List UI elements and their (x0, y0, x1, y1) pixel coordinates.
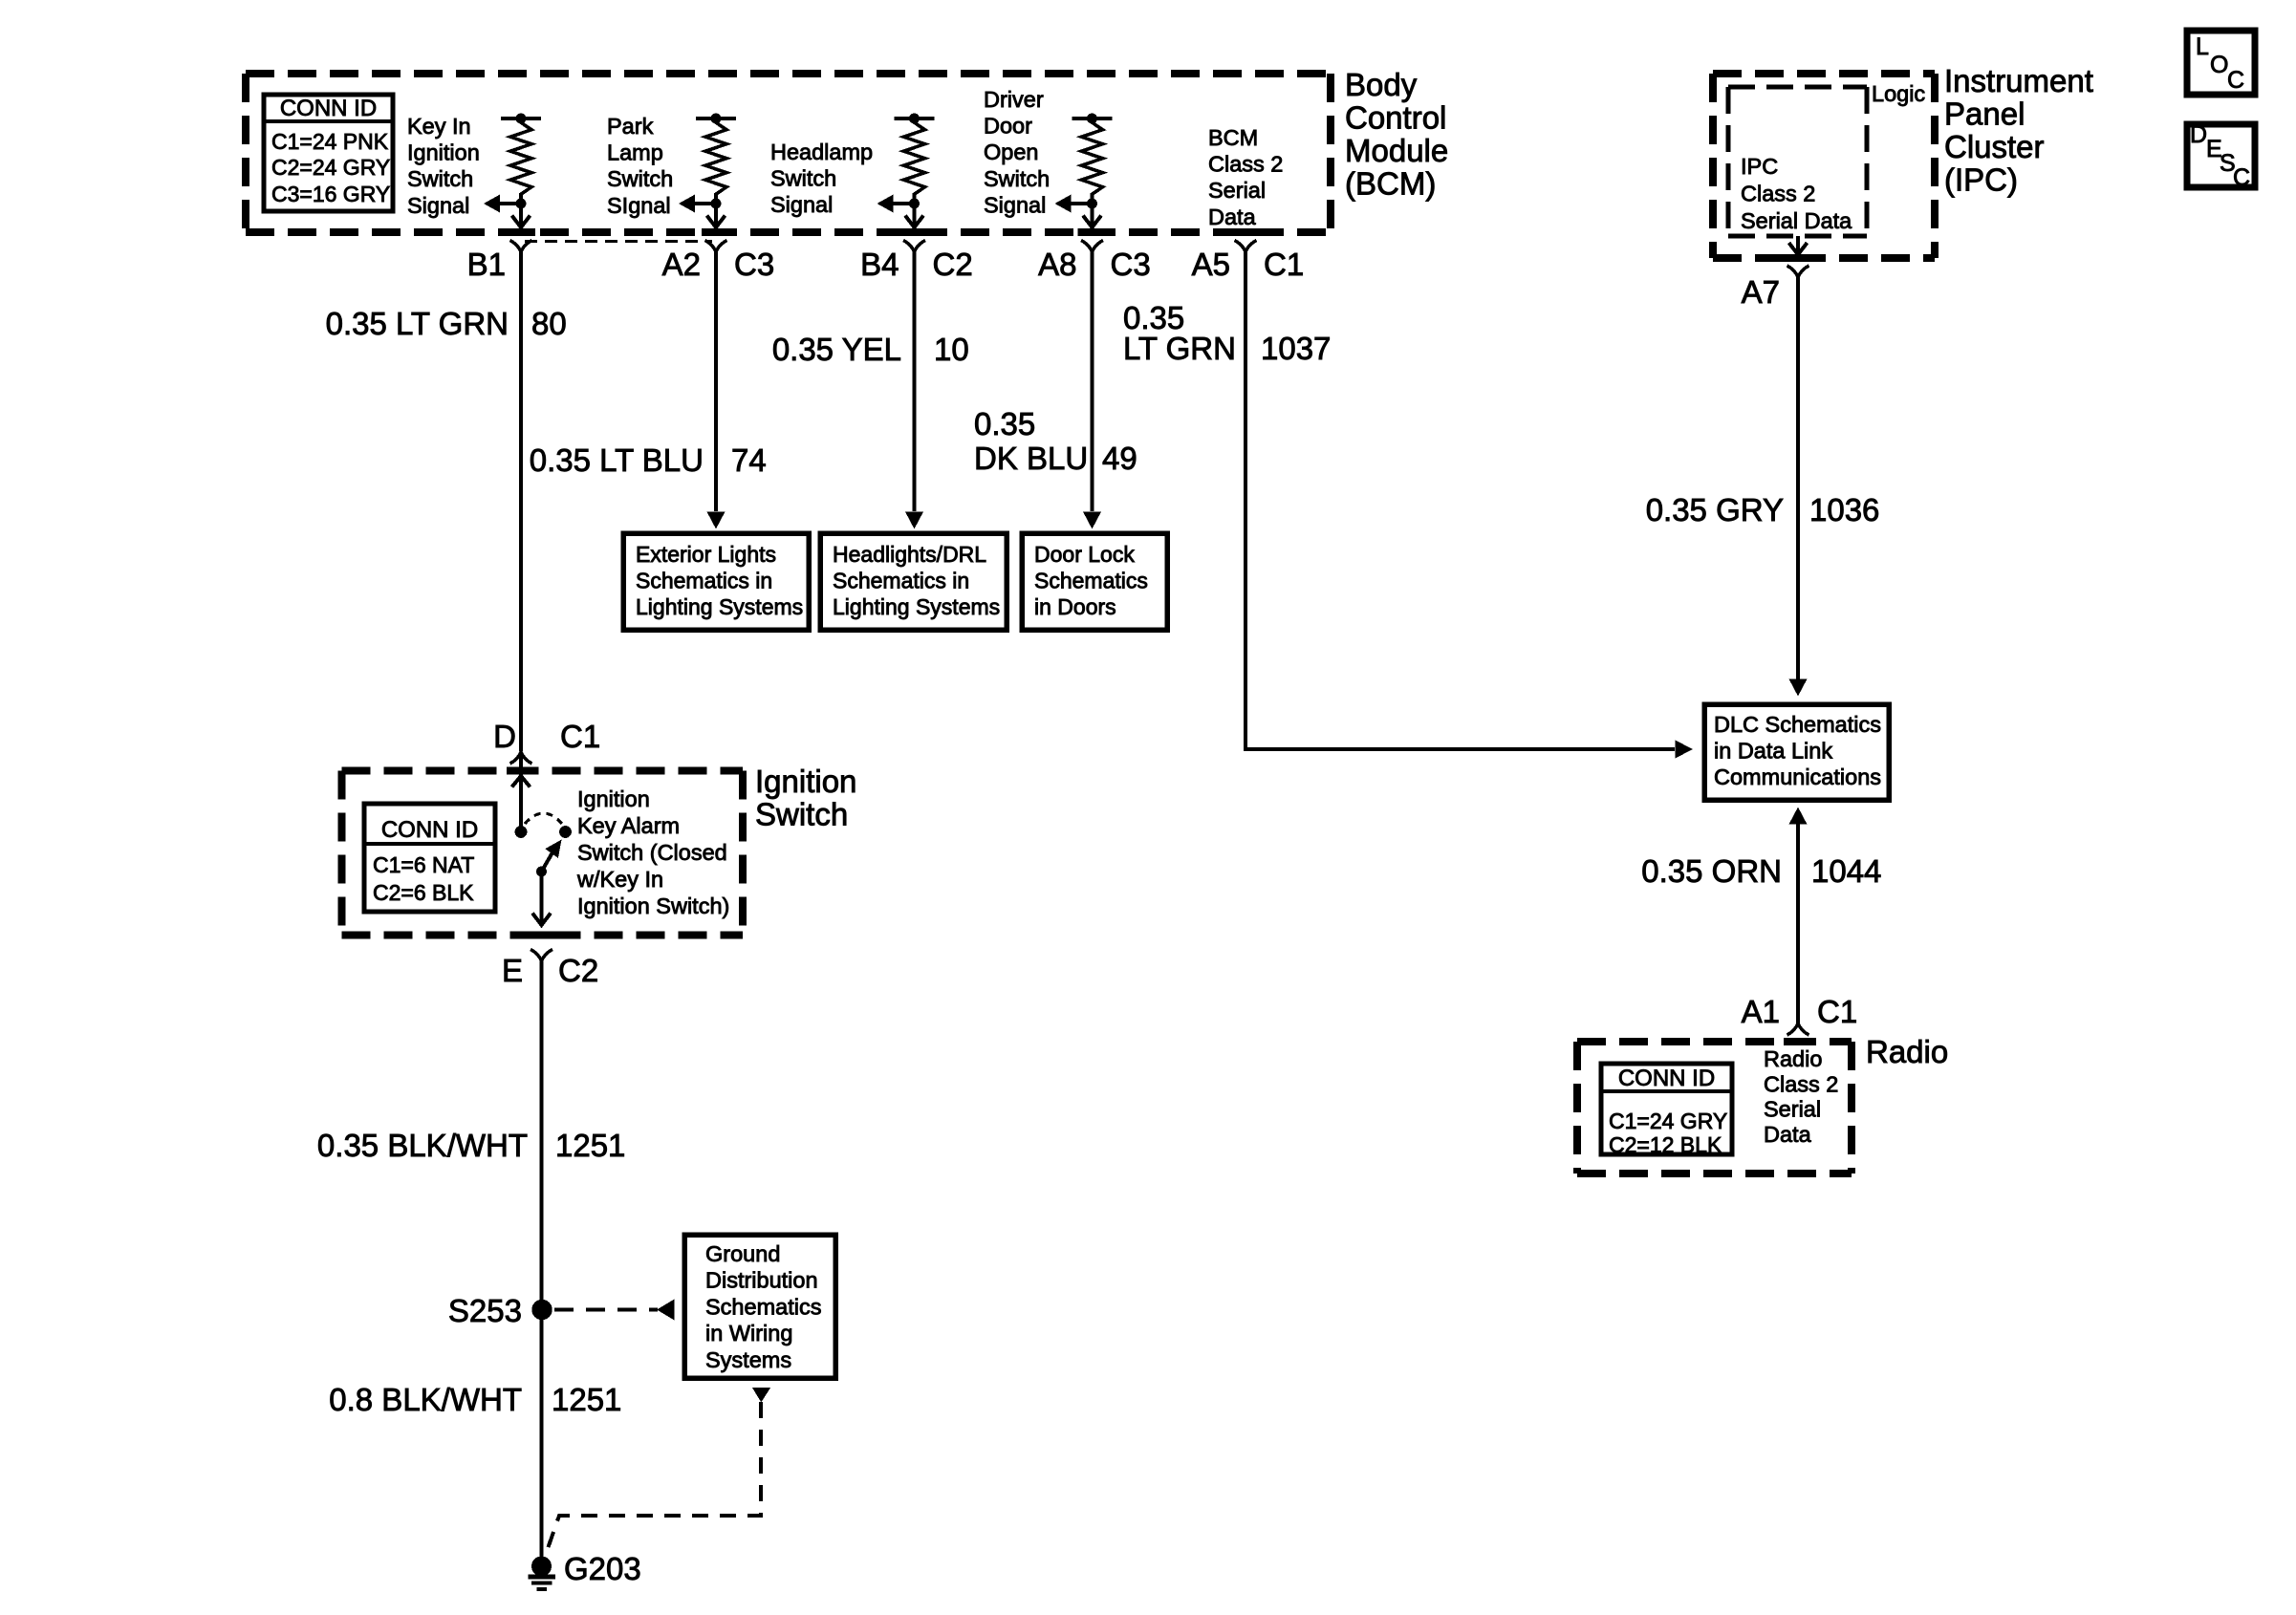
svg-text:C3: C3 (1111, 247, 1151, 282)
svg-text:B4: B4 (860, 247, 899, 282)
svg-text:Switch: Switch (607, 166, 673, 191)
svg-text:Class 2: Class 2 (1764, 1071, 1838, 1096)
svg-text:1251: 1251 (555, 1128, 625, 1163)
svg-text:0.35 ORN: 0.35 ORN (1641, 853, 1782, 889)
wire label 0.35 BLK/WHT 1251 (317, 1128, 626, 1163)
pin B4/C2 connector symbol (860, 241, 973, 283)
wire B4/C2 to headlights/DRL, 0.35 YEL 10 (905, 252, 923, 529)
svg-text:Driver: Driver (984, 87, 1044, 112)
svg-text:Park: Park (607, 114, 654, 139)
label Radio Class 2 Serial Data (1764, 1046, 1838, 1147)
svg-text:74: 74 (731, 442, 767, 478)
svg-text:Lamp: Lamp (607, 140, 663, 165)
svg-text:Switch: Switch (984, 166, 1050, 191)
svg-text:Ground: Ground (705, 1241, 780, 1266)
reference box: Door Lock Schematics in Doors (1022, 533, 1167, 630)
svg-text:Key Alarm: Key Alarm (577, 813, 680, 838)
svg-text:Key In: Key In (407, 114, 471, 139)
svg-text:C1: C1 (1264, 247, 1304, 282)
svg-text:Ignition Switch): Ignition Switch) (577, 894, 729, 918)
wire label 0.35 GRY 1036 (1646, 492, 1880, 528)
svg-text:Signal: Signal (984, 192, 1046, 217)
svg-text:0.35 LT GRN: 0.35 LT GRN (326, 306, 509, 341)
svg-text:Data: Data (1764, 1122, 1812, 1147)
svg-text:Ignition: Ignition (577, 786, 650, 811)
reference box: Ground Distribution Schematics in Wiring Systems (684, 1235, 835, 1378)
svg-text:Instrument: Instrument (1944, 63, 2093, 98)
svg-text:D: D (493, 719, 516, 754)
svg-text:S253: S253 (448, 1293, 522, 1328)
reference box: DLC Schematics in Data Link Communications (1704, 704, 1889, 800)
svg-text:Headlights/DRL: Headlights/DRL (833, 542, 986, 567)
reference box: Exterior Lights Schematics in Lighting Systems (623, 533, 809, 630)
svg-text:C2: C2 (933, 247, 973, 282)
Body Control Module (BCM) label (1345, 67, 1448, 202)
svg-text:D: D (2190, 121, 2207, 148)
dashed reference path from ground distribution box to G203 (544, 1388, 770, 1560)
svg-text:C1=6 NAT: C1=6 NAT (373, 852, 474, 877)
svg-text:in Doors: in Doors (1034, 594, 1116, 619)
svg-text:0.35 LT BLU: 0.35 LT BLU (530, 442, 704, 478)
svg-text:Cluster: Cluster (1944, 129, 2045, 164)
wire label 0.35 LT BLU 74 (530, 442, 767, 478)
wire label 0.35 DK BLU 49 (974, 406, 1137, 476)
svg-text:Serial: Serial (1764, 1097, 1821, 1122)
wire crossing dashes on BCM bottom border (507, 228, 1260, 236)
svg-text:Panel: Panel (1944, 97, 2025, 132)
svg-text:Signal: Signal (407, 193, 469, 218)
wire A7 to DLC, 0.35 GRY 1036 (1789, 277, 1808, 697)
svg-text:Radio: Radio (1764, 1046, 1822, 1071)
svg-text:Switch: Switch (407, 166, 473, 191)
svg-text:Body: Body (1345, 67, 1418, 102)
wire A2/C3 to exterior lights, 0.35 LT BLU 74 (707, 252, 726, 529)
svg-text:Schematics: Schematics (705, 1294, 821, 1319)
svg-text:0.35 BLK/WHT: 0.35 BLK/WHT (317, 1128, 528, 1163)
connector D/C1 at ignition switch (493, 719, 600, 764)
DESC legend box (2187, 121, 2255, 191)
connector dashed link line between pins B1 and A2 (connector C3) (525, 240, 712, 243)
svg-text:Open: Open (984, 140, 1039, 164)
svg-text:1251: 1251 (552, 1382, 621, 1417)
reference box: Headlights/DRL Schematics in Lighting Systems (820, 533, 1007, 630)
svg-text:DK BLU: DK BLU (974, 441, 1088, 476)
wire label 0.35 ORN 1044 (1641, 853, 1881, 889)
svg-text:A8: A8 (1038, 247, 1076, 282)
svg-text:in Wiring: in Wiring (705, 1321, 792, 1346)
pin A8/C3 connector symbol (1038, 241, 1151, 283)
svg-text:Systems: Systems (705, 1347, 791, 1372)
svg-text:CONN ID: CONN ID (1618, 1066, 1715, 1091)
label BCM Class 2 Serial Data (1208, 125, 1283, 229)
wire S253 to G203, 0.8 BLK/WHT 1251 (540, 1309, 544, 1558)
svg-text:Class 2: Class 2 (1208, 152, 1283, 177)
svg-text:Ignition: Ignition (407, 140, 480, 165)
svg-text:LT GRN: LT GRN (1123, 331, 1236, 366)
svg-text:Distribution: Distribution (705, 1268, 818, 1293)
wire crossing dash on IPC bottom border (1784, 254, 1812, 262)
label Key In Ignition Switch Signal (407, 114, 480, 218)
svg-text:Switch: Switch (755, 797, 848, 832)
svg-text:C: C (2233, 164, 2250, 191)
svg-text:Data: Data (1208, 205, 1257, 229)
svg-text:A2: A2 (662, 247, 701, 282)
wire B1 to ignition switch, 0.35 LT GRN 80 (519, 252, 523, 752)
LOC legend box (2187, 31, 2255, 95)
svg-text:A5: A5 (1192, 247, 1230, 282)
svg-text:C2: C2 (558, 953, 598, 988)
Ignition Switch label (755, 764, 856, 832)
label Park Lamp Switch Signal (607, 114, 673, 218)
svg-text:w/Key In: w/Key In (576, 867, 663, 892)
BCM CONN ID table (264, 95, 393, 211)
svg-text:Radio: Radio (1866, 1034, 1948, 1069)
svg-text:(BCM): (BCM) (1345, 166, 1436, 202)
connector A7 at IPC (1742, 266, 1809, 310)
svg-text:Control: Control (1345, 100, 1446, 136)
svg-text:L: L (2196, 33, 2209, 60)
Ignition Switch dashed outline (342, 771, 744, 936)
svg-text:0.35 GRY: 0.35 GRY (1646, 492, 1784, 528)
label Driver Door Open Switch Signal (984, 87, 1050, 217)
svg-text:Signal: Signal (770, 192, 833, 217)
svg-text:SIgnal: SIgnal (607, 193, 671, 218)
svg-text:1037: 1037 (1261, 331, 1331, 366)
wire A8/C3 to door lock, 0.35 DK BLU 49 (1083, 252, 1101, 529)
svg-text:10: 10 (934, 332, 969, 367)
pin A2/C3 connector symbol (662, 241, 775, 283)
Radio CONN ID table (1601, 1064, 1732, 1157)
resistor, Park Lamp Switch Signal pull-up (679, 114, 736, 228)
splice S253 (448, 1293, 552, 1328)
svg-text:Ignition: Ignition (755, 764, 856, 799)
dashed reference line from S253 to ground distribution box (554, 1300, 675, 1321)
label Headlamp Switch Signal (770, 140, 873, 217)
wire crossing dash on radio top border (1784, 1038, 1812, 1045)
svg-text:Headlamp: Headlamp (770, 140, 873, 164)
svg-text:Module: Module (1345, 133, 1448, 168)
resistor, Key In Ignition Switch Signal pull-up (484, 114, 541, 228)
svg-text:Schematics in: Schematics in (636, 569, 772, 593)
connector A1/C1 at radio (1742, 994, 1858, 1035)
svg-text:C: C (2227, 67, 2244, 94)
label IPC Class 2 Serial Data (1741, 154, 1852, 233)
svg-text:(IPC): (IPC) (1944, 162, 2018, 198)
svg-text:49: 49 (1102, 441, 1137, 476)
resistor, Headlamp Switch Signal pull-up (877, 114, 935, 228)
svg-text:C2=24 GRY: C2=24 GRY (271, 155, 390, 180)
svg-text:C2=6 BLK: C2=6 BLK (373, 880, 474, 905)
svg-text:CONN ID: CONN ID (381, 817, 478, 843)
resistor, Driver Door Open Switch Signal pull-up (1055, 114, 1113, 228)
svg-text:80: 80 (531, 306, 567, 341)
svg-text:Communications: Communications (1714, 764, 1881, 789)
svg-text:Exterior Lights: Exterior Lights (636, 542, 776, 567)
wire label 0.8 BLK/WHT 1251 (329, 1382, 621, 1417)
svg-text:Switch (Closed: Switch (Closed (577, 840, 727, 865)
svg-text:O: O (2210, 52, 2228, 78)
svg-text:Logic: Logic (1872, 81, 1925, 106)
svg-text:C3=16 GRY: C3=16 GRY (271, 182, 390, 206)
svg-text:BCM: BCM (1208, 125, 1258, 150)
wire A5/C1 BCM class 2 serial data to DLC, 0.35 LT GRN 1037 (1245, 252, 1693, 759)
svg-text:Door Lock: Door Lock (1034, 542, 1135, 567)
wire radio A1/C1 to DLC, 0.35 ORN 1044 (1789, 807, 1808, 1024)
svg-text:Schematics: Schematics (1034, 569, 1148, 593)
svg-text:Lighting Systems: Lighting Systems (833, 594, 1000, 619)
svg-text:C3: C3 (734, 247, 774, 282)
connector E/C2 at ignition switch (502, 950, 598, 989)
pin B1 connector symbol (467, 241, 532, 283)
wire E/C2 to S253, 0.35 BLK/WHT 1251 (540, 961, 544, 1310)
svg-text:C1=24 PNK: C1=24 PNK (271, 129, 389, 154)
svg-text:0.35: 0.35 (974, 406, 1035, 441)
wire label 0.35 YEL 10 (772, 332, 969, 367)
IPC logic dashed inner box (1728, 87, 1867, 236)
svg-text:0.8 BLK/WHT: 0.8 BLK/WHT (329, 1382, 522, 1417)
svg-text:C1=24 GRY: C1=24 GRY (1609, 1109, 1727, 1133)
svg-text:1044: 1044 (1811, 853, 1881, 889)
svg-text:Serial Data: Serial Data (1741, 208, 1852, 233)
pin A5/C1 connector symbol (1192, 241, 1305, 283)
svg-text:C2=12 BLK: C2=12 BLK (1609, 1132, 1722, 1157)
svg-text:Class 2: Class 2 (1741, 182, 1815, 206)
svg-text:A1: A1 (1742, 994, 1780, 1029)
svg-text:Switch: Switch (770, 166, 836, 191)
svg-text:C1: C1 (1817, 994, 1857, 1029)
Radio dashed outline (1577, 1042, 1852, 1174)
svg-text:DLC Schematics: DLC Schematics (1714, 712, 1881, 737)
svg-text:B1: B1 (467, 247, 506, 282)
svg-text:0.35 YEL: 0.35 YEL (772, 332, 901, 367)
svg-text:E: E (502, 953, 523, 988)
svg-text:in Data Link: in Data Link (1714, 739, 1832, 764)
svg-text:Schematics in: Schematics in (833, 569, 969, 593)
ground G203 (529, 1551, 641, 1589)
svg-text:Lighting Systems: Lighting Systems (636, 594, 803, 619)
wire label 0.35 LT GRN 80 (326, 306, 567, 341)
svg-text:A7: A7 (1742, 274, 1780, 310)
svg-text:IPC: IPC (1741, 154, 1778, 179)
svg-text:CONN ID: CONN ID (280, 96, 377, 121)
svg-text:G203: G203 (564, 1551, 641, 1586)
wire crossing dashes on ignition switch border (507, 771, 556, 936)
Instrument Panel Cluster (IPC) label (1944, 63, 2093, 198)
svg-text:Door: Door (984, 114, 1032, 139)
svg-text:Serial: Serial (1208, 178, 1266, 203)
Body Control Module (BCM) dashed outline (246, 74, 1331, 232)
wire label 0.35 LT GRN 1037 (1123, 300, 1331, 366)
IPC internal arrow to A7 (1789, 236, 1808, 255)
label Ignition Key Alarm Switch (Closed w/Key In Ignition Switch) (576, 786, 729, 918)
svg-text:C1: C1 (560, 719, 600, 754)
Instrument Panel Cluster dashed outline (1713, 74, 1935, 258)
ignition key alarm switch symbol (512, 752, 572, 925)
Ignition switch CONN ID table (364, 804, 495, 912)
svg-text:1036: 1036 (1809, 492, 1879, 528)
